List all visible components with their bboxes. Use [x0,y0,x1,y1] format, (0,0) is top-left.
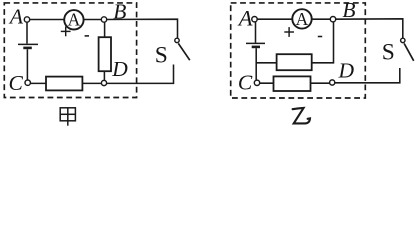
wire junction to resistor R3 upper (乙) [256,62,276,64]
svg-text:A: A [68,10,81,30]
switch S pivot (乙) [401,38,405,42]
svg-text:C: C [9,71,24,95]
battery cell (乙) [246,43,265,47]
caption 甲 [60,108,75,126]
svg-text:D: D [111,57,128,81]
node D (甲) [101,80,106,85]
ammeter A (乙) [292,9,311,29]
svg-text:C: C [238,71,253,95]
ammeter plus polarity mark (甲) [61,27,71,37]
ammeter minus polarity mark (甲) [85,35,89,37]
resistor R2 vertical (甲) [99,37,111,71]
wire C to D bottom (甲) [28,82,104,84]
resistor R3 upper (乙) [277,54,312,70]
resistor R4 lower (乙) [274,76,311,91]
wire battery bottom to node C (乙) [255,48,257,83]
svg-text:A: A [8,5,24,29]
ammeter plus polarity mark (乙) [284,27,294,37]
node D (乙) [330,80,335,85]
svg-text:S: S [382,40,395,66]
wire battery bottom to node C (甲) [26,49,28,82]
wire A to B through ammeter (甲 top wire) [27,19,104,21]
svg-text:A: A [237,6,253,31]
node B (甲) [101,17,106,22]
svg-text:D: D [338,58,355,82]
enclosure dashed box of circuit 甲 [4,3,136,98]
svg-text:B: B [113,0,126,23]
ammeter minus polarity mark (乙) [318,36,322,38]
wire A to B through ammeter (乙 top wire) [255,18,334,20]
resistor R1 horizontal (甲) [46,77,82,91]
node A (甲) [24,17,29,22]
node B (乙) [330,17,335,22]
wire B to switch (乙) [333,19,403,38]
wire B down to resistor R2 (甲) [104,20,106,39]
wire battery top to node A (甲) [26,20,28,44]
node C (乙) [254,80,259,85]
wire resistor R3 to B branch (乙) [312,19,334,63]
wire resistor R4 to node D (乙) [311,82,333,84]
svg-text:S: S [155,43,168,69]
wire battery top to node A (乙) [255,19,257,43]
caption 乙 [293,108,310,124]
svg-text:B: B [342,0,355,22]
wire D to switch contact (甲) [104,65,174,84]
wire resistor R2 to node D (甲) [103,71,105,84]
svg-text:A: A [296,9,309,29]
switch S blade (乙) [404,43,414,60]
node A (乙) [252,17,257,22]
wire C to lower resistor R4 (乙) [257,82,274,84]
wire D to switch contact (乙) [332,68,400,83]
node C (甲) [25,80,30,85]
switch S blade (甲) [178,43,190,60]
battery cell (甲) [18,44,38,48]
switch S pivot (甲) [175,38,179,42]
enclosure dashed box of circuit 乙 [231,3,366,98]
wire B to switch (甲) [104,19,178,38]
ammeter A (甲) [64,10,83,30]
